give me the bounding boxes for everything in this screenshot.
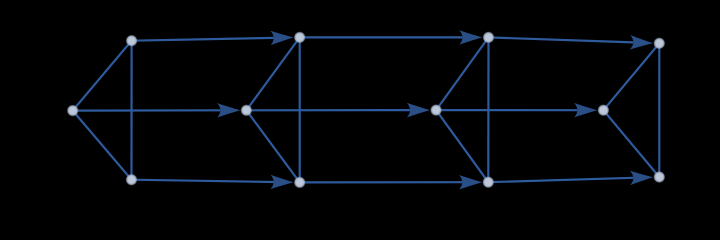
wire edge B2->B3 — [300, 181, 462, 183]
wire edge M2->M3 — [436, 109, 577, 111]
arrowhead B3->B4 — [630, 170, 653, 185]
arrowhead T2->T3 — [459, 30, 482, 44]
node B1 — [126, 174, 138, 186]
node T4 — [653, 37, 665, 49]
wire edge M1-T2 — [246, 37, 299, 110]
node M3 — [597, 104, 609, 116]
node M1 — [240, 104, 252, 116]
arrowhead B1->B2 — [270, 175, 293, 190]
wire edge M0-B1 — [73, 111, 132, 180]
node T2 — [294, 31, 306, 43]
wire edge T3->T4 — [489, 37, 634, 42]
wire edge T4-B4 — [658, 43, 660, 177]
wire edge M0-T1 — [73, 41, 132, 111]
node B3 — [482, 176, 494, 188]
wire edge T1->T2 — [132, 38, 274, 41]
wire edge M2-T3 — [436, 37, 488, 110]
wire edge T1-B1 — [130, 41, 132, 180]
node T3 — [483, 31, 495, 43]
node B4 — [653, 171, 665, 183]
wire edge M3-B4 — [603, 110, 659, 177]
wire edge M1-B2 — [246, 110, 299, 182]
wire edge B1->B2 — [132, 180, 274, 182]
arrowhead M2->M3 — [574, 103, 597, 117]
arrowhead B2->B3 — [459, 175, 482, 189]
arrowhead M0->M1 — [217, 103, 240, 117]
wire edge M0->M1 — [73, 109, 221, 111]
arrowhead T3->T4 — [630, 35, 653, 50]
wire edge M2-B3 — [436, 110, 488, 182]
arrowhead M1->M2 — [407, 103, 430, 117]
wire edge T3-B3 — [487, 37, 489, 182]
wire edge M3-T4 — [603, 43, 659, 110]
wire edge T2-B2 — [299, 37, 301, 182]
wire edge B3->B4 — [488, 178, 633, 182]
node B2 — [294, 176, 306, 188]
node T1 — [126, 35, 138, 47]
arrowhead T1->T2 — [270, 30, 293, 45]
node M0 — [67, 105, 79, 117]
node M2 — [430, 104, 442, 116]
wire edge T2->T3 — [300, 36, 463, 38]
wire edge M1->M2 — [246, 109, 410, 111]
